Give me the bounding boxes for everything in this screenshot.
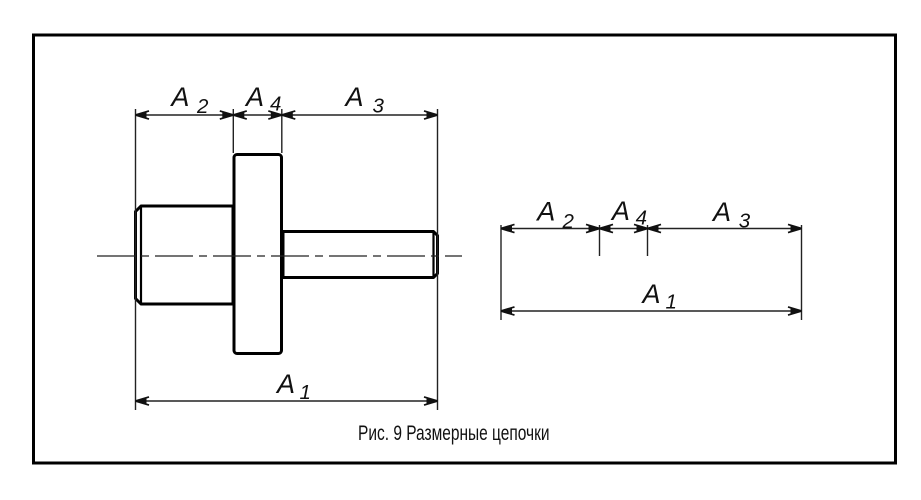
svg-text:A: A [610,196,630,226]
arrow chain A1 right end [788,307,802,315]
shaft chamfer edge line [432,232,434,278]
svg-text:4: 4 [270,93,281,116]
label A4 (drawing) [244,82,281,116]
chain diagram right vertical [801,225,803,320]
svg-text:1: 1 [300,381,311,404]
top dimension line A2 A4 A3 [136,114,438,116]
arrow chain A2 left end [501,224,515,232]
arrow A4 right end [268,111,282,119]
arrow A1 left end [136,397,150,405]
label A4 (chain) [610,196,647,230]
chain diagram left vertical [500,225,502,320]
extension line right (x=437.5) [437,109,439,410]
label A1 (chain) [641,279,677,314]
svg-text:2: 2 [196,95,209,118]
arrow chain A3 left end [648,224,662,232]
chain diagram tick A2/A4 [599,225,601,256]
svg-text:Рис. 9 Размерные цепочки: Рис. 9 Размерные цепочки [358,421,550,445]
arrow chain A2 right end [586,224,600,232]
head chamfer edge line [140,206,142,304]
svg-text:3: 3 [373,95,385,118]
svg-text:4: 4 [636,207,647,230]
svg-text:A: A [711,197,731,227]
arrow A3 left end [282,111,296,119]
label A2 (drawing) [169,82,209,118]
svg-text:A: A [344,82,364,112]
chain diagram A1 dimension line [501,310,802,312]
shaft head (large cylinder) with chamfered left end [136,206,234,304]
svg-text:A: A [244,82,264,112]
label A2 (chain) [535,197,574,234]
arrow chain A3 right end [788,224,802,232]
arrow chain A1 left end [501,307,515,315]
flange (collar) [234,155,282,354]
label A3 (chain) [711,197,751,233]
centerline [97,255,462,257]
chain diagram tick A4/A3 [647,225,649,256]
arrow chain A4 right end [634,224,648,232]
svg-text:2: 2 [562,210,575,233]
small shaft (right cylinder) with chamfered right end [283,232,438,278]
svg-text:A: A [169,82,189,112]
extension line flange right (x=281.8) [281,109,283,153]
arrow A4 left end [233,111,247,119]
svg-text:A: A [275,369,295,399]
svg-text:3: 3 [739,210,751,233]
arrow A2 left end [136,111,150,119]
svg-text:A: A [641,279,661,309]
label A3 (drawing) [344,82,385,118]
label A1 (drawing) [275,369,311,404]
svg-text:A: A [535,197,555,227]
arrow A2 right end [220,111,234,119]
arrow A1 right end [424,397,438,405]
arrow chain A4 left end [600,224,614,232]
arrow A3 right end [424,111,438,119]
chain diagram top dimension line [501,228,802,230]
extension line left (x=135.5) [135,109,137,410]
extension line flange left (x=233.3) [232,109,234,153]
bottom dimension line A1 [136,400,438,402]
svg-text:1: 1 [666,291,677,314]
